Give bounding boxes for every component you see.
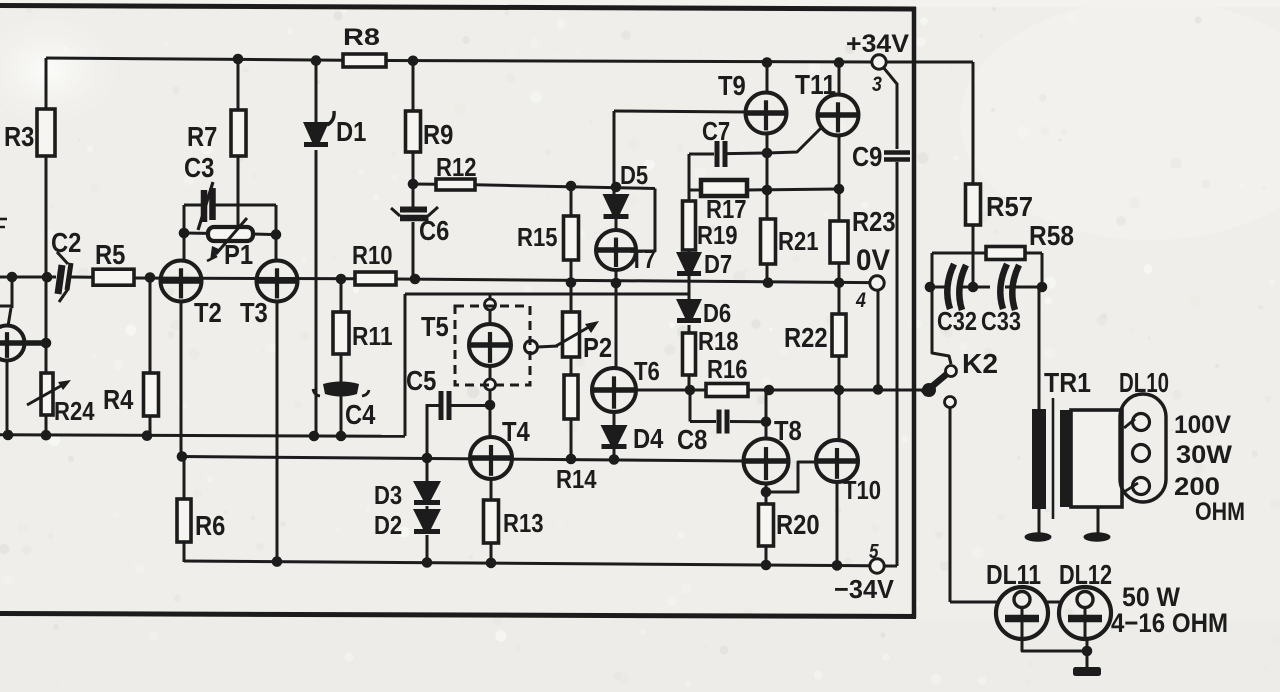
svg-text:R10: R10 [352, 240, 393, 270]
svg-text:T8: T8 [774, 415, 802, 446]
svg-text:R4: R4 [103, 384, 134, 415]
svg-text:R57: R57 [986, 191, 1033, 222]
svg-text:30W: 30W [1176, 441, 1232, 469]
svg-text:R14: R14 [556, 464, 597, 494]
svg-text:R24: R24 [54, 396, 95, 426]
svg-text:C6: C6 [419, 215, 449, 246]
svg-text:R58: R58 [1029, 220, 1074, 251]
svg-text:D4: D4 [633, 423, 664, 454]
svg-text:R15: R15 [517, 222, 558, 252]
svg-text:D7: D7 [704, 249, 732, 279]
svg-text:D1: D1 [336, 116, 366, 147]
svg-text:R21: R21 [778, 226, 819, 256]
svg-text:C33: C33 [981, 306, 1021, 336]
svg-text:200: 200 [1174, 473, 1220, 501]
svg-text:100V: 100V [1174, 411, 1231, 439]
svg-text:T2: T2 [194, 297, 222, 328]
svg-text:R7: R7 [187, 121, 217, 152]
svg-text:R18: R18 [698, 326, 739, 356]
svg-text:TR1: TR1 [1044, 367, 1091, 398]
svg-text:C32: C32 [937, 306, 977, 336]
svg-text:R5: R5 [95, 239, 125, 270]
svg-text:4−16 OHM: 4−16 OHM [1111, 608, 1228, 638]
svg-text:T9: T9 [718, 70, 746, 101]
svg-text:T3: T3 [240, 297, 268, 328]
svg-text:C5: C5 [406, 365, 436, 396]
svg-text:R6: R6 [195, 510, 225, 541]
svg-text:C9: C9 [852, 141, 882, 172]
svg-text:−34V: −34V [834, 574, 895, 604]
svg-text:T4: T4 [502, 416, 530, 447]
svg-text:T5: T5 [421, 311, 449, 342]
svg-text:P2: P2 [583, 332, 612, 363]
svg-text:D3: D3 [374, 480, 402, 510]
svg-text:R19: R19 [697, 220, 738, 250]
svg-text:T10: T10 [843, 475, 881, 505]
svg-text:D5: D5 [620, 160, 648, 190]
svg-text:5: 5 [869, 541, 879, 563]
svg-text:0V: 0V [856, 244, 890, 277]
svg-text:T6: T6 [634, 356, 660, 386]
svg-text:D6: D6 [703, 298, 731, 328]
svg-text:R9: R9 [423, 119, 453, 150]
svg-text:R22: R22 [784, 322, 828, 353]
svg-text:D2: D2 [374, 510, 402, 540]
svg-text:C4: C4 [345, 399, 376, 430]
svg-text:C8: C8 [677, 424, 707, 455]
svg-text:3: 3 [872, 73, 882, 96]
svg-text:DL11: DL11 [986, 559, 1041, 590]
svg-text:C3: C3 [184, 152, 214, 183]
svg-text:4: 4 [855, 289, 866, 312]
svg-text:K2: K2 [962, 348, 998, 379]
svg-text:R20: R20 [776, 509, 820, 540]
svg-text:T11: T11 [795, 69, 836, 100]
svg-text:+34V: +34V [846, 30, 909, 58]
svg-text:P1: P1 [224, 239, 253, 270]
svg-text:OHM: OHM [1195, 498, 1245, 526]
svg-text:R3: R3 [4, 121, 34, 152]
svg-text:C7: C7 [702, 116, 730, 146]
svg-text:R11: R11 [352, 321, 393, 351]
svg-text:R16: R16 [707, 354, 748, 384]
svg-text:R23: R23 [852, 206, 896, 237]
svg-text:R13: R13 [503, 508, 544, 538]
svg-text:R8: R8 [343, 24, 380, 51]
svg-text:R12: R12 [436, 152, 477, 182]
svg-text:T7: T7 [630, 244, 656, 274]
svg-text:C2: C2 [51, 227, 81, 258]
svg-text:DL10: DL10 [1119, 367, 1169, 398]
svg-text:DL12: DL12 [1059, 559, 1112, 590]
